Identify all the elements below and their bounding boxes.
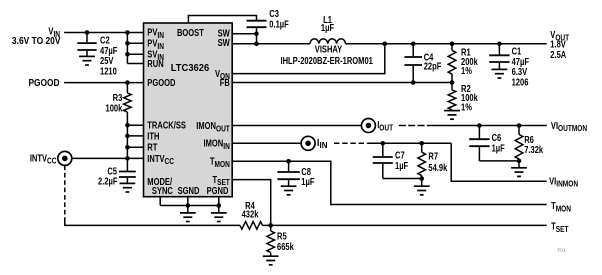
wire VIN rail [64, 32, 143, 34]
resistor R2 100k [448, 83, 456, 110]
junction FB-R1R2 [450, 80, 455, 85]
svg-text:1.8V: 1.8V [550, 38, 566, 49]
label L1 part number VISHAY [281, 43, 374, 66]
capacitor C2 47uF input cap [77, 33, 96, 56]
svg-text:VISHAY: VISHAY [315, 43, 343, 54]
svg-text:2.2µF: 2.2µF [98, 176, 117, 187]
label C4 value [424, 51, 442, 71]
label R1 value [461, 46, 478, 76]
svg-text:PGOOD: PGOOD [28, 77, 59, 88]
svg-text:F01: F01 [558, 248, 566, 253]
junction VIN-C2 [85, 30, 90, 35]
capacitor C4 22pF [404, 44, 422, 83]
junction SGND [186, 203, 191, 208]
wire INTVCC to IC [72, 157, 144, 159]
svg-text:SW: SW [218, 37, 231, 48]
svg-text:RUN: RUN [147, 58, 163, 69]
svg-text:1206: 1206 [512, 77, 529, 88]
node VIN input label [12, 26, 61, 46]
resistor R4 432k [240, 222, 263, 230]
wire VIINMON drop and rail [451, 143, 547, 181]
svg-text:TRACK/SS: TRACK/SS [147, 120, 186, 131]
wire VON feedback [232, 44, 385, 74]
wire VIOUTMON rail [431, 125, 546, 127]
junction VIN-bus [125, 30, 130, 35]
wire MODE/SYNC-SGND-PGND ground rail [160, 197, 219, 213]
svg-text:1210: 1210 [100, 66, 117, 77]
label C3 value [269, 8, 288, 30]
svg-text:BOOST: BOOST [177, 27, 204, 38]
resistor R6 7.32k [515, 126, 523, 168]
ground below PGND [211, 213, 227, 222]
wire FB rail [232, 82, 452, 84]
junction VOUT-C4 [411, 42, 416, 47]
junction SW2 [254, 42, 259, 47]
label R6 value [524, 134, 543, 155]
svg-text:C3: C3 [269, 8, 279, 19]
svg-text:7.32k: 7.32k [524, 144, 543, 155]
junction TSET-R5 [268, 223, 273, 228]
label R5 value [277, 231, 294, 252]
label C8 value [301, 166, 314, 187]
label C6 value [492, 132, 505, 153]
junction PGOOD-R3 [125, 80, 130, 85]
wire IMONOUT [232, 125, 361, 127]
svg-text:1µF: 1µF [492, 143, 505, 154]
junction FB-C4 [411, 80, 416, 85]
junction bus-PVIN2 [125, 41, 130, 46]
junction bus-RT [125, 145, 130, 150]
svg-text:3.6V TO 20V: 3.6V TO 20V [12, 35, 61, 46]
label C5 value [98, 165, 117, 186]
wire IIN monitor rail [368, 142, 452, 144]
label C2 value [100, 34, 117, 76]
svg-text:R3: R3 [113, 92, 123, 103]
svg-text:1µF: 1µF [321, 22, 334, 33]
node IIN test point [301, 136, 315, 150]
resistor R7 54.9k [418, 143, 426, 186]
capacitor C8 1uF [277, 161, 299, 186]
wire PGOOD [64, 82, 143, 84]
label C1 value [512, 45, 529, 87]
wire IMONIN [232, 142, 301, 144]
junction PGND [217, 203, 222, 208]
wire TMON [232, 161, 547, 204]
svg-text:1µF: 1µF [395, 160, 408, 171]
ground below C5 [120, 183, 136, 192]
wire SW2 to L1 [232, 43, 310, 45]
junction IIN-R7 [419, 141, 424, 146]
junction IIN-C7 [381, 141, 386, 146]
capacitor C1 47uF output cap [489, 44, 509, 69]
label R2 value [461, 83, 478, 113]
svg-text:0.1µF: 0.1µF [269, 19, 288, 30]
ground below R7 [414, 186, 430, 195]
svg-text:54.9k: 54.9k [428, 162, 447, 173]
resistor R1 200k [448, 44, 456, 83]
junction bus-INTVCC [125, 156, 130, 161]
junction C7-R7 ground [419, 176, 424, 181]
ground below C8 [281, 186, 297, 195]
capacitor C5 2.2uF INTVCC bypass [119, 172, 136, 183]
wire PVIN/SVIN/RUN bus [127, 33, 143, 64]
capacitor C7 1uF [373, 143, 422, 178]
junction bus-SVIN [125, 52, 130, 57]
svg-text:ITH: ITH [147, 130, 159, 141]
svg-text:LTC3626: LTC3626 [171, 63, 209, 74]
junction VOUT-R1 [450, 42, 455, 47]
wire dashed IIN link [334, 142, 368, 144]
svg-text:100k: 100k [105, 103, 122, 114]
junction SW1-C3 [254, 31, 259, 36]
U1 right/top/bottom pin labels [177, 27, 231, 196]
label R3 value [105, 92, 122, 114]
label R7 value [428, 150, 447, 173]
wire R4 to junction [263, 224, 271, 226]
resistor R5 665k [267, 225, 275, 255]
inductor L1 1uF Vishay [310, 39, 346, 44]
svg-text:SGND: SGND [178, 185, 200, 196]
svg-text:1%: 1% [461, 101, 472, 112]
svg-text:R7: R7 [428, 150, 438, 161]
svg-text:1%: 1% [461, 65, 472, 76]
node VOUT output label [550, 29, 569, 60]
junction VIOUTMON-C6 [477, 123, 482, 128]
wire dashed INTVCC sense drop [64, 165, 66, 222]
svg-text:PGOOD: PGOOD [147, 77, 175, 88]
junction VOUT-VON [383, 42, 388, 47]
junction TMON-C8 [286, 159, 291, 164]
wire TSET rail right [271, 224, 547, 226]
ground below C2 [79, 56, 95, 65]
ground below R5 [263, 256, 279, 265]
wire SW1 [232, 33, 256, 35]
junction bus-TRACK/SS [125, 123, 130, 128]
wire dashed IOUT link [399, 125, 432, 127]
wire TSET pin to junction [232, 180, 271, 226]
capacitor C6 1uF [469, 126, 519, 161]
svg-text:FB: FB [220, 77, 230, 88]
wire BOOST to C3 [188, 16, 256, 24]
junction C6-R6 ground [517, 159, 522, 164]
wire VOUT rail [346, 43, 547, 45]
wire SW tie [256, 34, 258, 44]
svg-text:RT: RT [147, 142, 158, 153]
svg-text:1µF: 1µF [301, 176, 314, 187]
capacitor C3 0.1uF boost cap [247, 21, 267, 34]
svg-text:SYNC: SYNC [152, 185, 174, 196]
label L1 value [321, 14, 334, 33]
svg-text:22pF: 22pF [424, 61, 442, 72]
label R4 value [242, 200, 259, 220]
ground below SGND [180, 213, 196, 222]
ground below C1 [492, 69, 508, 78]
svg-text:IHLP-2020BZ-ER-1ROM01: IHLP-2020BZ-ER-1ROM01 [281, 55, 374, 66]
svg-text:PGND: PGND [207, 185, 229, 196]
node IOUT test point [361, 119, 375, 133]
label C7 value [395, 150, 408, 171]
svg-text:432k: 432k [242, 208, 259, 219]
junction VOUT-C1 [497, 42, 502, 47]
IC U1 LTC3626 body [144, 23, 233, 197]
wire TSET bottom rail left [65, 222, 240, 226]
wire TRACK-ITH-RT-INTVCC bus [127, 112, 143, 171]
svg-text:2.5A: 2.5A [550, 49, 567, 60]
node INTVCC test point [58, 151, 72, 165]
resistor R3 100k pull-up [124, 83, 132, 112]
ground below R6 [511, 168, 527, 177]
ground below R2 [444, 111, 460, 120]
junction bus-ITH [125, 134, 130, 139]
junction VIOUTMON-R6 [517, 123, 522, 128]
U1 left pin labels [147, 27, 186, 197]
svg-text:665k: 665k [277, 241, 294, 252]
